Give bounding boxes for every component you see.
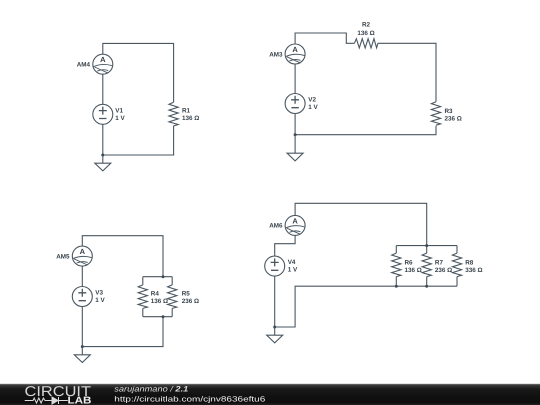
footer bar [0,0,1,1]
wire: R5 bottom lead [171,308,173,316]
junction dot: parallel trio top node [425,244,428,247]
wire: AM5 bottom to V3 top [81,266,83,286]
ammeter AM4 [93,54,113,74]
resistor R8 [452,253,461,277]
resistor R3 [431,102,440,126]
wire: R8 bottom lead [456,277,458,287]
ground (circuit 2) [287,145,303,161]
svg-text:1 V: 1 V [115,115,125,122]
wire: R8 top lead [456,246,458,254]
svg-text:336 Ω: 336 Ω [465,267,482,274]
wire: R1 bottom to ground node (circuit 1 bottom rail) [103,126,174,155]
resistor R1 [169,102,178,126]
wire: circuit 4 bottom rail to ground node [275,286,457,327]
svg-text:R1: R1 [182,108,191,115]
wire: parallel pair top rail [143,276,172,278]
wire: AM3 top to R2 left (circuit 2 top) [295,33,354,44]
ground (circuit 4) [267,327,283,343]
ammeter AM5 [72,246,92,266]
junction dot: circuit 4 ground node [273,326,276,329]
wire: R4 top lead [142,277,144,285]
svg-text:136 Ω: 136 Ω [151,298,168,305]
ground (circuit 3) [74,347,90,363]
wire: R7 top lead [426,246,428,254]
svg-text:AM5: AM5 [56,253,70,260]
wire: AM4 bottom to V1 top [102,74,104,104]
svg-text:136 Ω: 136 Ω [357,30,374,37]
wire: V3 bottom to ground node [81,307,83,347]
svg-text:R6: R6 [405,259,414,266]
junction dot: circuit 1 ground node [101,154,104,157]
CircuitLab logo resistor-diode glyph [25,397,68,404]
wire: R3 bottom to ground node (circuit 2 bottom rail) [295,126,436,135]
svg-text:V3: V3 [95,289,103,296]
wire: parallel pair to circuit 3 bottom rail [82,317,163,347]
wire: V4 bottom to ground node [274,276,276,327]
wire: AM5 top to parallel pair top (circuit 3 top rail) [82,236,163,277]
junction dot: parallel pair bottom node [162,315,165,318]
svg-text:R4: R4 [151,291,160,298]
wire: AM6 top to parallel trio top (circuit 4 top rail) [295,203,427,245]
svg-text:sarujanmano / 2.1: sarujanmano / 2.1 [114,385,188,394]
wire: parallel trio top rail [396,245,457,247]
resistor R5 [168,285,177,309]
wire: R4 bottom lead [142,308,144,316]
svg-text:136 Ω: 136 Ω [405,267,422,274]
svg-text:236 Ω: 236 Ω [435,267,452,274]
wire: parallel pair bottom rail [143,316,172,318]
junction dot: circuit 2 ground node [294,133,297,136]
svg-text:V1: V1 [115,108,123,115]
junction dot: R7 bottom node [425,285,428,288]
svg-text:http://circuitlab.com/cjnv8636: http://circuitlab.com/cjnv8636eftu6 [114,395,265,404]
voltage source V4 [265,256,285,276]
ammeter AM3 [285,44,305,64]
wire: R6 top lead [395,246,397,254]
wire: V1 bottom to ground node [102,124,104,155]
ground (circuit 1) [95,155,111,171]
wire: V2 bottom to ground node [294,114,296,135]
junction dot: circuit 3 ground node [81,345,84,348]
junction dot: parallel pair top node [162,275,165,278]
wire: AM3 bottom to V2 top [294,64,296,94]
ammeter AM6 [285,215,305,235]
voltage source V3 [72,287,92,307]
wire: R6 bottom lead [395,277,397,287]
resistor R2 [354,39,378,48]
svg-text:R8: R8 [465,259,474,266]
wire: ground stem (circuit 2) [294,135,296,145]
resistor R4 [138,285,147,309]
junction dot: R6 bottom node [395,285,398,288]
wire: V4 top to AM6 bottom [275,235,295,256]
svg-text:V4: V4 [288,259,296,266]
svg-text:R3: R3 [445,108,454,115]
voltage source V2 [285,94,305,114]
wire: R7 bottom lead [426,277,428,287]
svg-text:1 V: 1 V [288,267,298,274]
svg-text:R7: R7 [435,259,444,266]
svg-text:1 V: 1 V [95,297,105,304]
wire: R5 top lead [171,277,173,285]
wire: R2 right to R3 top (circuit 2 right edge) [378,43,436,101]
voltage source V1 [93,104,113,124]
svg-text:AM4: AM4 [77,62,91,69]
svg-text:V2: V2 [308,96,316,103]
svg-text:136 Ω: 136 Ω [182,115,199,122]
resistor R7 [422,253,431,277]
svg-text:1 V: 1 V [308,104,318,111]
svg-text:LAB: LAB [68,396,92,405]
resistor R6 [392,253,401,277]
svg-text:AM6: AM6 [269,223,283,230]
svg-text:236 Ω: 236 Ω [182,298,199,305]
wire: AM4 top to R1 top (circuit 1 top rail) [103,43,174,102]
svg-text:236 Ω: 236 Ω [445,115,462,122]
svg-text:AM3: AM3 [269,51,283,58]
svg-text:R2: R2 [362,21,371,28]
svg-text:R5: R5 [182,291,191,298]
